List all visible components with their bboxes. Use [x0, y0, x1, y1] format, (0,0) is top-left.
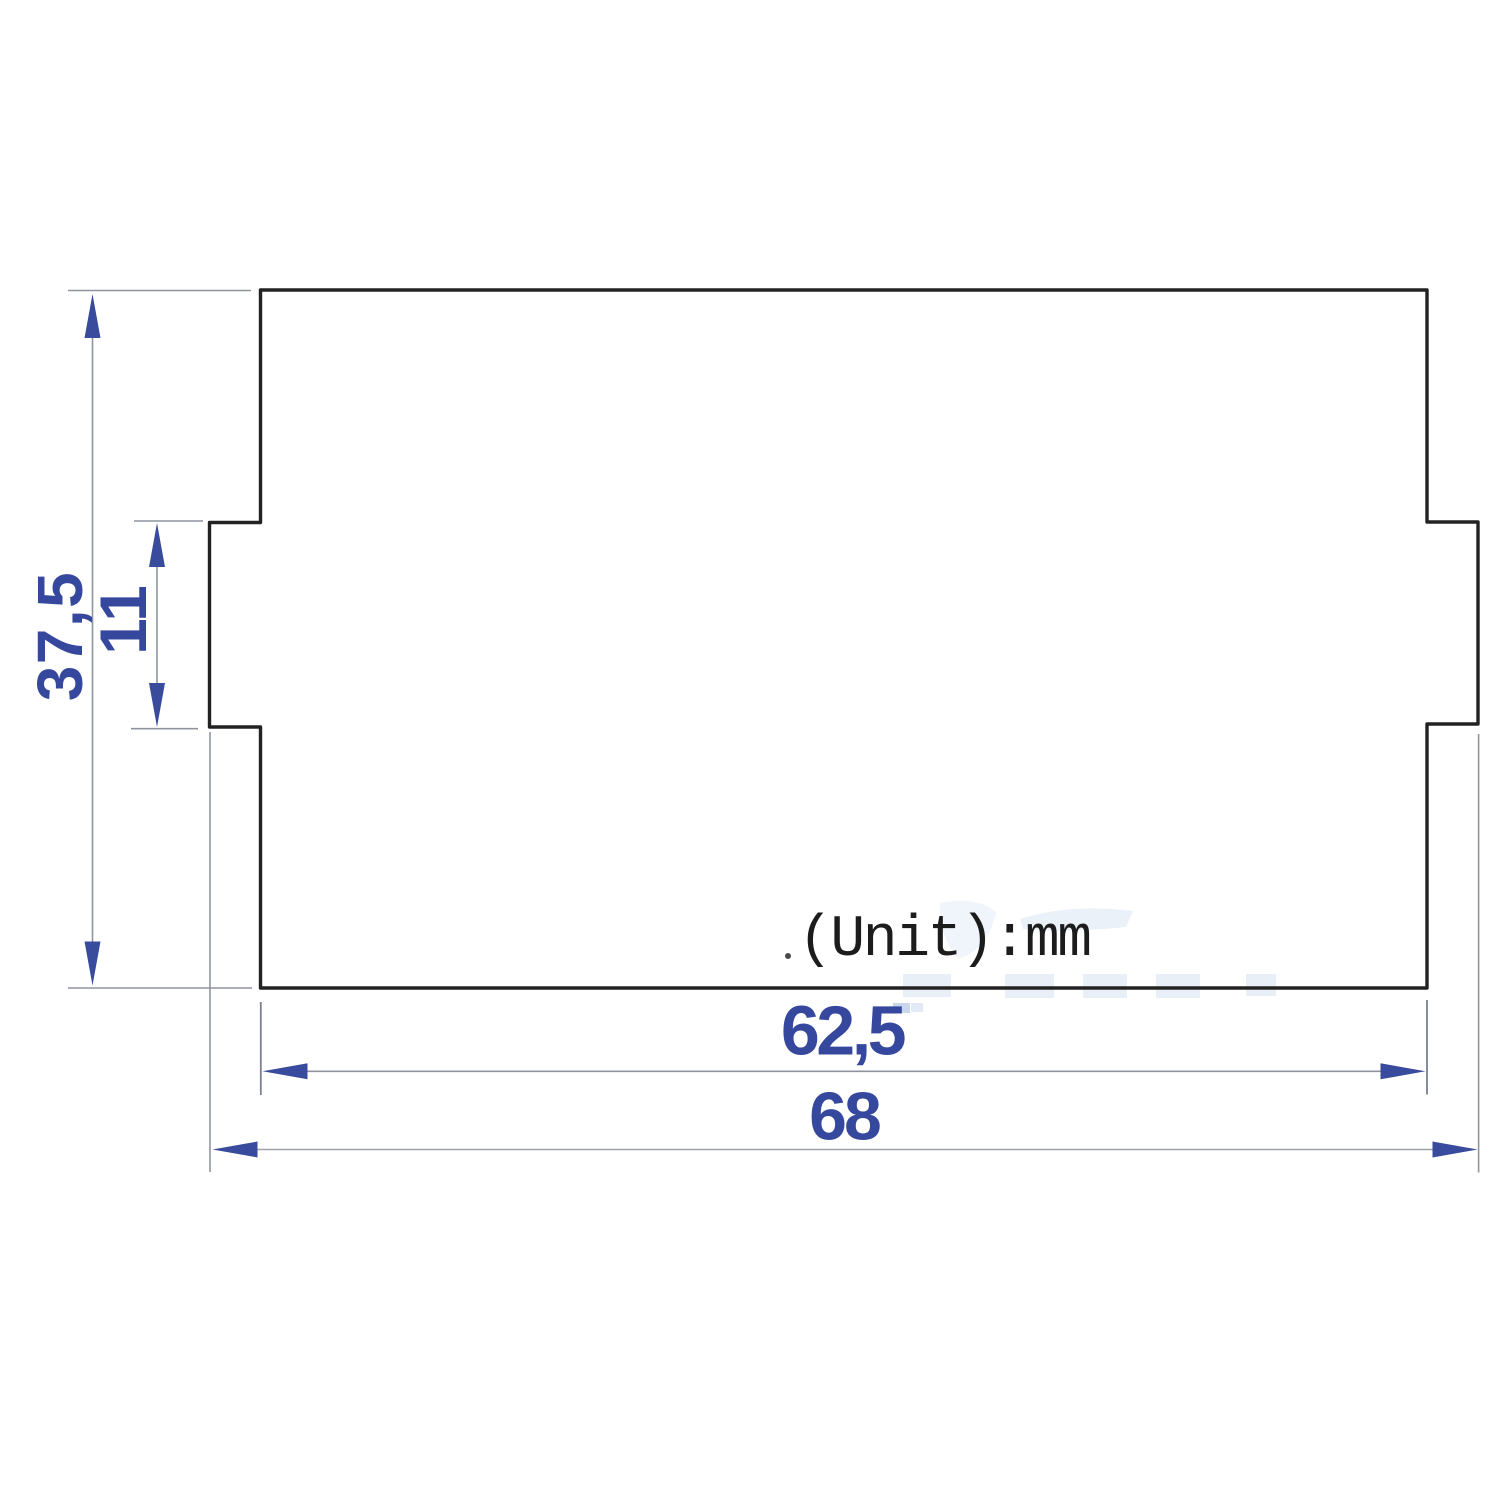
dim line 68: [250, 1149, 1441, 1151]
arrowhead 11 up: [149, 523, 165, 567]
watermark swish left: [940, 901, 996, 959]
extension line 11 top: [134, 520, 203, 522]
extension line bottom (37,5): [68, 987, 252, 989]
extension line 62,5 left: [260, 1002, 262, 1095]
extension line 68 right: [1478, 734, 1480, 1173]
arrowhead 68 right: [1433, 1142, 1478, 1158]
arrowhead 62,5 left: [263, 1063, 308, 1079]
dim line 37,5: [92, 330, 94, 946]
svg-text:11: 11: [86, 585, 160, 655]
extension line 62,5 right: [1426, 1000, 1428, 1095]
dim line 11: [156, 560, 158, 690]
watermark band row: [903, 974, 1276, 998]
watermark swish right: [1020, 908, 1133, 930]
watermark dot: [785, 953, 791, 959]
panel outline: [210, 290, 1479, 988]
extension line 11 bottom: [131, 728, 198, 730]
svg-text:62,5: 62,5: [781, 992, 905, 1070]
watermark tick: [893, 1003, 910, 1013]
svg-text:(Unit):mm: (Unit):mm: [798, 908, 1090, 973]
watermark tick2: [911, 1003, 923, 1012]
svg-text:68: 68: [809, 1079, 880, 1155]
arrowhead 68 left: [213, 1142, 258, 1158]
dim line 62,5: [300, 1070, 1389, 1072]
extension line top (37,5): [68, 290, 251, 292]
extension line 68 left: [209, 732, 211, 1172]
arrowhead 62,5 right: [1381, 1063, 1426, 1079]
arrowhead 37,5 down: [85, 942, 101, 986]
arrowhead 11 down: [149, 683, 165, 727]
arrowhead 37,5 up: [85, 294, 101, 338]
